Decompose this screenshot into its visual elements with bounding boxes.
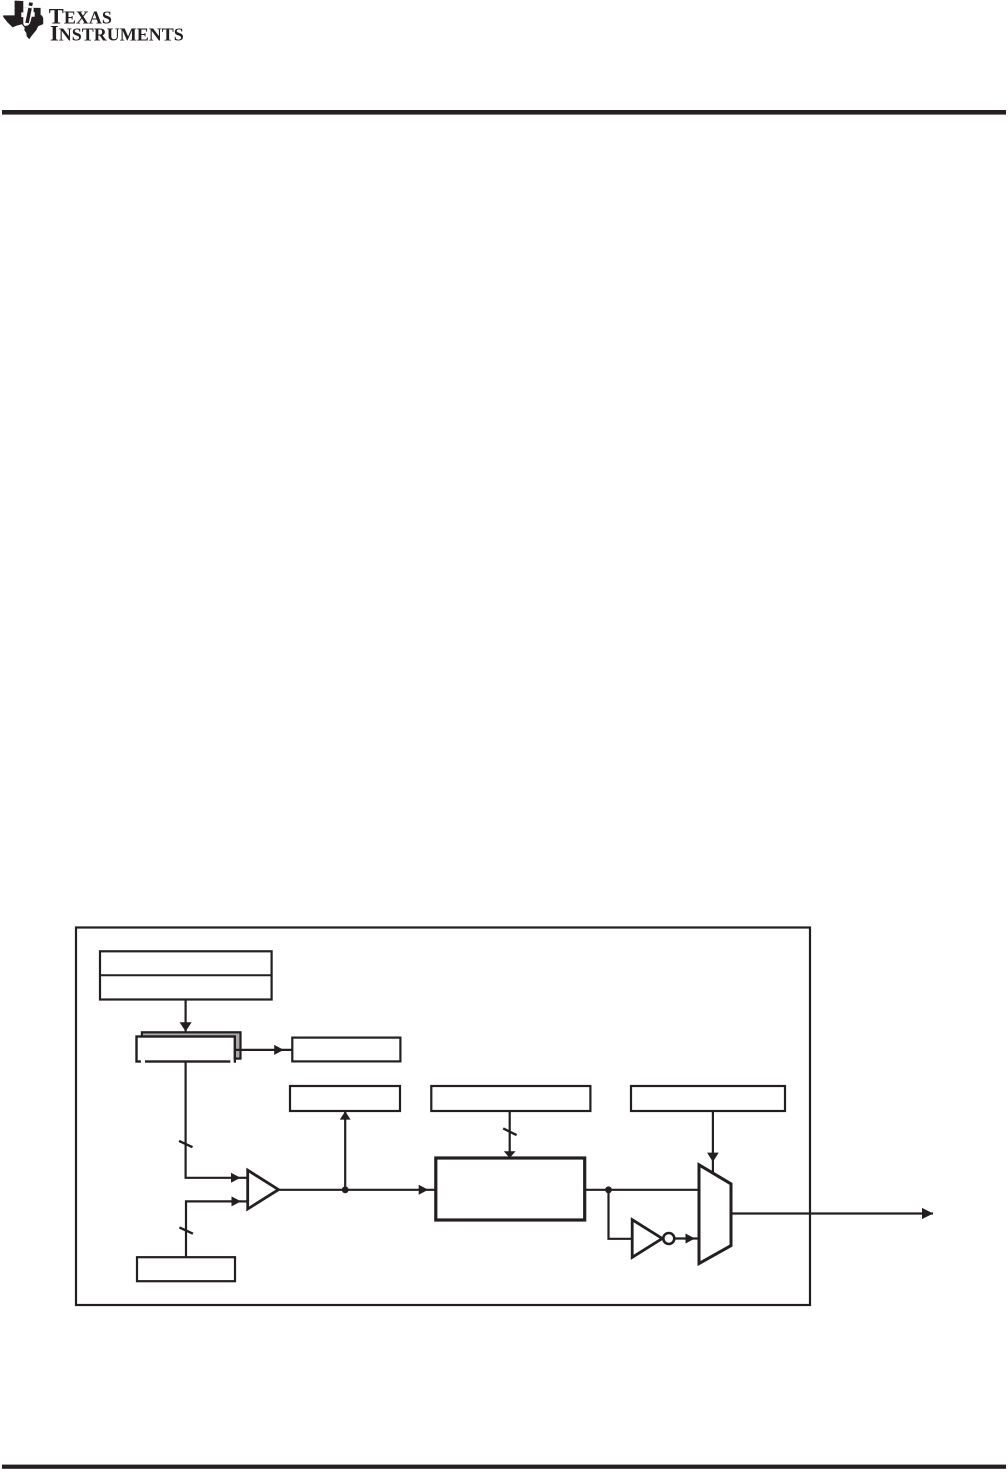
wire from register box down to shadow register [185, 1000, 187, 1037]
wire from inverter bubble to mux [674, 1237, 699, 1239]
box1 above comparator output [290, 1086, 400, 1111]
bottom-left box [137, 1257, 235, 1281]
inverter bubble [663, 1233, 674, 1244]
inverter triangle [632, 1220, 662, 1258]
arrowhead at output end [922, 1208, 933, 1219]
compare box (right of shadow register) [292, 1038, 400, 1062]
arrowhead into counter top [504, 1151, 516, 1158]
mux trapezoid [699, 1165, 731, 1264]
wire from comparator to counter [279, 1189, 436, 1191]
wire continuing to comparator edge [241, 1200, 248, 1202]
svg-text:INSTRUMENTS: INSTRUMENTS [50, 21, 184, 46]
counter box (thick border) [436, 1158, 585, 1220]
wire from bottom-left box up to comparator lower input [186, 1201, 241, 1257]
comparator triangle [248, 1170, 279, 1209]
output wire from mux [731, 1212, 933, 1214]
wire from shadow register to compare box [235, 1049, 292, 1051]
arrowhead into counter [419, 1185, 429, 1195]
arrowhead into compare box [274, 1045, 284, 1055]
wire from box3 down to mux select [712, 1111, 714, 1173]
register box (two rows) [100, 951, 272, 999]
junction dot on counter output [605, 1186, 612, 1193]
wire from shadow register down to comparator upper input [186, 1062, 241, 1178]
bus slash on lower comparator wire [179, 1227, 193, 1233]
top header rule [2, 110, 1006, 115]
diagram outer border [76, 928, 810, 1306]
arrowhead into box1 [340, 1111, 351, 1119]
junction dot on comparator output [342, 1186, 349, 1193]
shadow register front box [137, 1037, 235, 1064]
wire from junction down to inverter [609, 1190, 633, 1239]
TI logo Texas state emblem [3, 1, 43, 40]
arrowhead into comparator upper input [231, 1173, 241, 1183]
wire from box2 down to counter [509, 1111, 511, 1158]
wire from junction up to box1 [344, 1111, 346, 1190]
bottom footer rule [2, 1465, 1006, 1469]
arrowhead into shadow register [180, 1022, 192, 1031]
arrowhead into mux top [707, 1153, 719, 1162]
box3 above mux [631, 1086, 785, 1111]
wire from counter to mux [585, 1189, 699, 1191]
bus slash on box2 wire [503, 1128, 516, 1135]
arrowhead into mux lower input [686, 1234, 696, 1244]
box2 above counter [431, 1086, 590, 1111]
shadow register back box (gray) [142, 1032, 241, 1058]
wire continuing to comparator edge [241, 1177, 248, 1179]
arrowhead into comparator lower input [232, 1196, 242, 1206]
bus slash on upper comparator wire [179, 1141, 193, 1147]
